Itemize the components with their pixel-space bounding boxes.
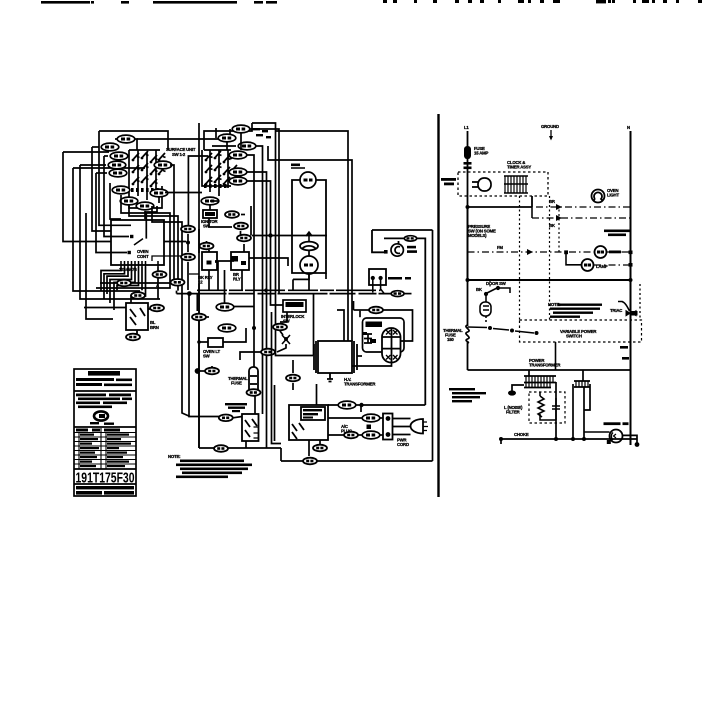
hv transformer [314, 341, 357, 382]
svg-text:FUSE: FUSE [231, 381, 242, 386]
clock timer dotted box [458, 172, 548, 196]
svg-text:TRANSFORMER: TRANSFORMER [344, 382, 376, 387]
power transformer coils [524, 376, 590, 388]
resistor zigzag [538, 396, 544, 417]
svg-text:NOTE:: NOTE: [168, 454, 181, 459]
connector oval [286, 375, 300, 382]
wire middle connections [188, 215, 288, 312]
wire magnetron leads [314, 294, 413, 405]
bake relay box [202, 252, 217, 270]
node junction [197, 340, 201, 344]
node junction [466, 205, 470, 209]
connector oval [225, 211, 239, 218]
wire bank2 feeders [137, 123, 252, 448]
connector oval [117, 280, 131, 287]
connector oval [171, 279, 185, 286]
wire top horizontals from switch bank 1 [63, 131, 168, 173]
connector oval [181, 254, 195, 261]
interlock monitor box [283, 300, 306, 312]
oven relay block A [242, 414, 259, 441]
connector oval [238, 142, 256, 150]
oven lamp circle 2 [582, 259, 594, 271]
wire rc leads [540, 392, 556, 420]
oven control clock box [111, 206, 164, 265]
label oven lamp [291, 167, 305, 169]
svg-text:CONT: CONT [137, 254, 149, 259]
node junction [510, 329, 514, 333]
bank1 teeth row [131, 188, 159, 192]
wire relayF left feed [84, 307, 126, 309]
connector oval [218, 324, 236, 332]
connector oval [362, 414, 380, 422]
wire clock out solid [468, 196, 533, 207]
wire bank2 right risers [210, 123, 327, 448]
variable power dotted box [520, 320, 642, 342]
label marks right bus [620, 346, 628, 349]
connector oval [229, 177, 247, 185]
connector oval [150, 305, 164, 312]
svg-text:TIMER ASSY: TIMER ASSY [507, 165, 531, 170]
node junction [252, 326, 256, 330]
connector oval small [508, 390, 516, 395]
magnetron capsule [382, 328, 401, 363]
label thermostat [604, 422, 629, 425]
svg-text:GROUND: GROUND [541, 124, 559, 129]
table title blob [76, 371, 132, 386]
label bake element right [604, 230, 630, 237]
svg-text:SW: SW [203, 354, 211, 359]
connector oval [181, 226, 195, 233]
connector oval [154, 161, 172, 169]
svg-text:FM: FM [497, 245, 503, 250]
connector oval [192, 314, 206, 321]
wire transformer tops [268, 131, 362, 356]
connector oval [362, 431, 380, 439]
magnetron assembly box [363, 318, 405, 352]
label dsi smudge [303, 409, 322, 419]
svg-text:TRIAC: TRIAC [610, 308, 622, 313]
wire dashdot top run [532, 207, 630, 218]
broil relay box [231, 252, 249, 270]
label fan motor [609, 251, 621, 254]
table logo circle [90, 411, 114, 425]
table cell smudges [80, 434, 131, 468]
table outer box [74, 369, 136, 496]
wire lamp box bottom rails [177, 274, 412, 294]
node junction [466, 278, 470, 282]
clock motor circle [391, 244, 403, 256]
node junction [535, 331, 539, 335]
arrow [527, 249, 533, 255]
divider line between diagrams [437, 114, 439, 497]
connector oval [214, 445, 228, 452]
bank2 teeth row [204, 184, 227, 188]
svg-text:MODELS): MODELS) [468, 233, 487, 238]
thermal fuse capsule [249, 367, 258, 393]
light switch stem [306, 232, 312, 241]
wire clock drops [101, 256, 199, 310]
svg-text:15 AMP: 15 AMP [474, 151, 488, 156]
connector oval [101, 143, 119, 151]
svg-text:A: A [156, 283, 159, 288]
svg-text:FILTER: FILTER [506, 410, 521, 415]
node junction [268, 233, 272, 237]
svg-text:CHOKE: CHOKE [514, 432, 529, 437]
mold fuse box [369, 269, 386, 293]
connector oval [219, 415, 233, 422]
connector oval [338, 401, 356, 409]
connector oval [131, 292, 145, 299]
connector oval [232, 125, 250, 133]
connector oval [247, 389, 261, 396]
wire interlock chain [240, 273, 326, 360]
triac symbol [618, 302, 638, 317]
wire bank1 right risers [96, 165, 190, 417]
wire relayA leads [189, 294, 281, 444]
surface unit switch bank 2 [202, 150, 231, 196]
surface unit switch bank 1 [129, 150, 162, 208]
connector oval [273, 324, 287, 331]
connector oval [108, 161, 126, 169]
node junction [629, 278, 633, 282]
table grid [74, 428, 136, 469]
svg-text:DOOR SW: DOOR SW [486, 281, 507, 286]
svg-text:BRN: BRN [150, 325, 159, 330]
table column header [76, 429, 120, 432]
connector oval [216, 303, 234, 311]
table header divider [74, 390, 136, 392]
rc filter dotted box [529, 392, 565, 423]
connector oval [234, 223, 248, 230]
ground symbol [541, 124, 559, 141]
square node [367, 425, 372, 430]
table bottom smudge rows [76, 486, 134, 495]
connector oval L1 [117, 135, 135, 143]
wire lower bus [468, 369, 631, 371]
door switch [480, 287, 510, 322]
connector oval [200, 243, 214, 250]
label ignitor smudge [252, 128, 271, 138]
wire transformer leads [512, 370, 590, 439]
connector oval [229, 168, 247, 176]
node junction [186, 241, 190, 245]
node junction [264, 289, 268, 293]
connector oval [229, 151, 247, 159]
connector oval [150, 189, 168, 197]
table paragraph smudge [76, 394, 132, 409]
svg-text:SW 1-2: SW 1-2 [172, 152, 186, 157]
line fuse capsule [464, 146, 489, 169]
light switch oval [300, 242, 318, 251]
wire mid verticals [196, 284, 256, 448]
label caution text [449, 388, 486, 402]
label mold fuse [388, 277, 411, 280]
svg-text:TRANSFORMER: TRANSFORMER [529, 363, 561, 368]
connector oval [126, 334, 140, 341]
svg-text:L1: L1 [464, 125, 469, 130]
power cord plug cup [411, 419, 429, 434]
dotted verticals from clock box [490, 196, 559, 320]
wire L1 vertical [467, 131, 469, 326]
interlock switch contacts [282, 335, 290, 344]
svg-text:LAMP: LAMP [596, 264, 608, 269]
label on-off sw left [441, 178, 456, 185]
connector oval [112, 186, 130, 194]
connector oval small [404, 236, 416, 241]
node junction [359, 403, 363, 407]
connector oval [344, 432, 358, 439]
connector oval [201, 197, 219, 205]
connector oval [136, 202, 154, 210]
connector oval [391, 291, 404, 297]
connector oval [218, 134, 236, 142]
light bulb circle [300, 250, 318, 274]
connector oval [313, 445, 327, 452]
top cut-off text row [41, 0, 702, 4]
label backguard text [225, 403, 247, 412]
wire bottom neutral [501, 438, 637, 440]
thermal fuse wavy [466, 325, 469, 343]
wire dashdot fan run [468, 252, 631, 265]
connector oval [237, 235, 251, 242]
fan motor circle [595, 246, 607, 258]
oven light switch box [208, 338, 223, 347]
wires inside var box [468, 327, 535, 333]
connector oval [120, 197, 138, 205]
svg-text:N: N [627, 125, 630, 130]
oven thermostat circle [610, 430, 623, 443]
connector oval A [153, 271, 167, 278]
clock loop element [472, 178, 491, 191]
connector oval [205, 368, 219, 375]
svg-text:LIGHT: LIGHT [607, 193, 619, 198]
node junctions bottom [499, 437, 503, 441]
power cord block [383, 414, 411, 440]
svg-text:150: 150 [447, 337, 454, 342]
connector oval [303, 458, 317, 465]
node junction [488, 326, 492, 330]
connector oval [369, 307, 383, 314]
wire solid mid bus [468, 279, 631, 281]
arrow marks [556, 204, 562, 210]
oven lamp circle [300, 172, 316, 188]
wire fan lamp loop [372, 230, 433, 405]
svg-text:SWITCH: SWITCH [566, 334, 582, 339]
wire bundle left outer loop [63, 131, 186, 319]
node junction [187, 291, 192, 296]
wire therm leads [584, 431, 610, 433]
left L1 vertical mid [467, 207, 469, 280]
connector oval [109, 169, 127, 177]
node square [384, 250, 388, 254]
dsi module block B [289, 405, 328, 440]
oven light bulb right [592, 190, 605, 203]
label fan lamp [407, 246, 417, 253]
timer motor coil [504, 176, 528, 193]
dsi module dark box [203, 210, 217, 218]
clock box bottom terminals [121, 261, 158, 267]
connector oval [110, 152, 128, 160]
oven lamp enclosure box [292, 180, 326, 273]
wire var box to bus [555, 342, 557, 370]
svg-text:RLY: RLY [233, 277, 241, 282]
dotted var-box right edge extension [639, 284, 641, 320]
oven relay box lower-left [126, 303, 157, 334]
capacitor [552, 398, 560, 417]
wire bottom run [199, 230, 433, 461]
wire right bus vertical L2 [630, 131, 632, 445]
wire L1 lower vertical [467, 342, 469, 370]
svg-text:PLUG: PLUG [341, 429, 353, 434]
svg-text:191T175F30: 191T175F30 [76, 471, 135, 487]
svg-text:CORD: CORD [397, 442, 409, 447]
connector oval [261, 349, 275, 356]
